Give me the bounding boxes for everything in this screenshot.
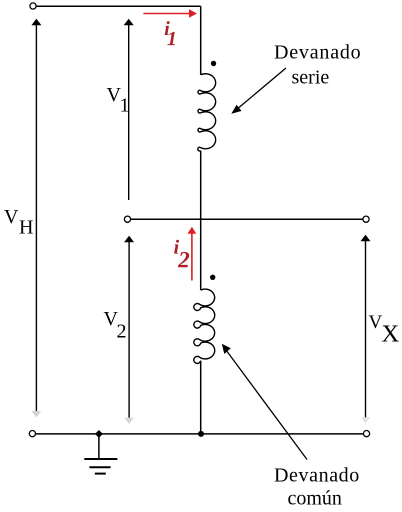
svg-text:V: V <box>4 206 19 228</box>
svg-text:H: H <box>19 217 33 239</box>
svg-text:Devanado: Devanado <box>274 464 360 486</box>
svg-text:serie: serie <box>292 67 330 89</box>
svg-text:V: V <box>369 312 383 333</box>
svg-text:X: X <box>382 321 400 348</box>
svg-text:común: común <box>288 487 342 509</box>
svg-text:2: 2 <box>117 321 127 343</box>
svg-text:1: 1 <box>120 95 130 117</box>
svg-text:Devanado: Devanado <box>274 42 361 64</box>
